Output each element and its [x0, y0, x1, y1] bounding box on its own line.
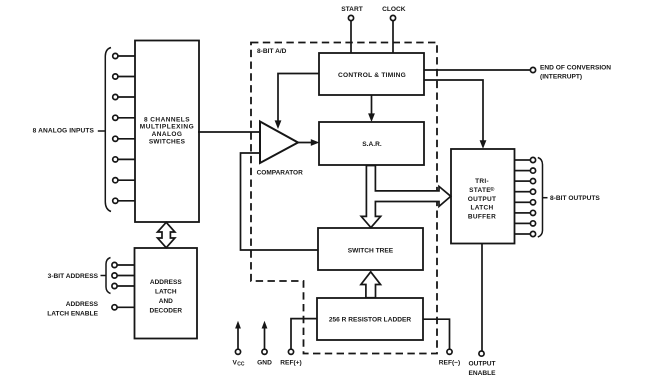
svg-text:MULTIPLEXING: MULTIPLEXING — [140, 124, 195, 131]
svg-text:CONTROL & TIMING: CONTROL & TIMING — [338, 72, 406, 79]
bidirectional arrow: mux to address latch — [158, 222, 175, 247]
svg-text:S.A.R.: S.A.R. — [362, 141, 382, 148]
wire: mux output to comparator — [198, 131, 260, 133]
svg-text:LATCH ENABLE: LATCH ENABLE — [47, 310, 98, 317]
8 output pins — [515, 157, 536, 236]
svg-text:END OF CONVERSION: END OF CONVERSION — [540, 65, 611, 72]
comparator U1 — [257, 122, 304, 177]
bus arrow: SAR to switch tree and tri-state buffer — [361, 166, 451, 228]
3-bit address pins — [112, 262, 135, 288]
block: 8 channels multiplexing analog switches — [135, 41, 199, 223]
block: address latch and decoder — [135, 248, 198, 339]
pin: START — [341, 6, 363, 53]
svg-text:SWITCHES: SWITCHES — [149, 139, 186, 146]
svg-text:8 ANALOG INPUTS: 8 ANALOG INPUTS — [33, 128, 95, 135]
brace: 8 analog inputs — [33, 48, 111, 212]
svg-text:LATCH: LATCH — [155, 289, 177, 296]
wire: control feedback to comparator — [275, 74, 319, 130]
block: 256R resistor ladder — [317, 298, 423, 340]
wire: control to tri-state buffer — [424, 80, 486, 149]
svg-text:CC: CC — [237, 362, 245, 368]
svg-text:ENABLE: ENABLE — [468, 370, 496, 377]
svg-text:8-BIT OUTPUTS: 8-BIT OUTPUTS — [550, 195, 600, 202]
svg-text:DECODER: DECODER — [150, 308, 183, 315]
wire + pin: end of conversion — [424, 65, 611, 81]
svg-text:REF(+): REF(+) — [280, 360, 301, 367]
svg-text:STATE: STATE — [469, 187, 491, 194]
pin: address latch enable — [47, 301, 134, 317]
pin: CLOCK — [382, 6, 406, 53]
svg-text:AND: AND — [159, 298, 173, 305]
svg-text:(INTERRUPT): (INTERRUPT) — [540, 74, 582, 81]
block: switch tree — [318, 228, 423, 270]
dashed 8-bit A/D boundary — [251, 43, 437, 354]
8 analog input pins — [113, 53, 135, 203]
svg-text:ANALOG: ANALOG — [152, 131, 183, 138]
wire: switch tree to comparator input — [241, 153, 319, 250]
svg-text:OUTPUT: OUTPUT — [468, 361, 495, 368]
svg-text:COMPARATOR: COMPARATOR — [257, 170, 304, 177]
svg-text:256 R RESISTOR LADDER: 256 R RESISTOR LADDER — [329, 317, 412, 324]
block: control and timing — [319, 53, 424, 95]
pin: VCC supply arrow — [233, 321, 245, 368]
pin + wire: output enable — [468, 244, 496, 377]
svg-text:START: START — [341, 6, 363, 13]
svg-text:SWITCH TREE: SWITCH TREE — [348, 248, 394, 255]
svg-text:8 CHANNELS: 8 CHANNELS — [144, 116, 190, 123]
pin: GND supply arrow — [257, 321, 272, 367]
brace: 3-bit address — [48, 258, 111, 294]
svg-text:3-BIT ADDRESS: 3-BIT ADDRESS — [48, 273, 99, 280]
svg-text:LATCH: LATCH — [470, 205, 493, 212]
block: S.A.R. — [319, 122, 424, 165]
wire: comparator output to SAR — [298, 139, 319, 146]
svg-text:GND: GND — [257, 360, 272, 367]
wire: control to SAR — [368, 95, 375, 122]
svg-text:REF(−): REF(−) — [439, 360, 460, 367]
brace: 8-bit outputs — [538, 158, 601, 238]
svg-text:ADDRESS: ADDRESS — [150, 279, 182, 286]
block: tri-state output latch buffer — [451, 149, 515, 244]
svg-text:8-BIT A/D: 8-BIT A/D — [257, 48, 287, 55]
svg-text:OUTPUT: OUTPUT — [468, 196, 497, 203]
pin + wire: REF(-) — [423, 319, 460, 366]
bus arrow: resistor ladder to switch tree — [361, 272, 381, 298]
svg-text:TRI-: TRI- — [475, 178, 489, 185]
svg-text:ADDRESS: ADDRESS — [66, 301, 99, 308]
svg-text:CLOCK: CLOCK — [382, 6, 406, 13]
pin + wire: REF(+) — [280, 319, 317, 367]
svg-text:BUFFER: BUFFER — [468, 213, 496, 220]
